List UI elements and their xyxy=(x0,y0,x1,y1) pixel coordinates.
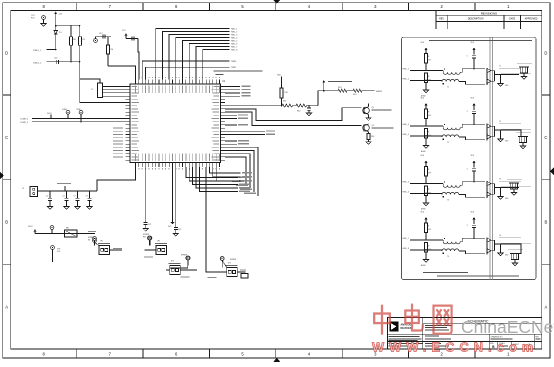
block 1 isolator U4 xyxy=(487,65,531,85)
firm field xyxy=(425,336,451,340)
U2 top pin numbers xyxy=(135,77,220,78)
block 4 transformer T4 xyxy=(442,238,460,258)
size field xyxy=(490,343,495,349)
wire XTAL1 xyxy=(47,49,56,51)
U2 bottom pin stubs xyxy=(136,163,220,168)
wires U2 bottom-right with labels xyxy=(209,167,252,181)
right border zone letters D-A xyxy=(544,50,547,309)
block 4 wire R to ground xyxy=(425,252,427,260)
block 4 wire sec top xyxy=(460,238,485,241)
svg-text:T2: T2 xyxy=(447,142,449,144)
resistor R16 below Q2 xyxy=(367,132,374,142)
block 3 input wire HWL b xyxy=(403,191,442,194)
address micro text 2 xyxy=(389,343,423,346)
wire COM8 bus xyxy=(32,118,126,120)
SPORT wires and labels xyxy=(225,114,248,125)
resistor R13 xyxy=(338,87,347,92)
block 1 resistor R1b xyxy=(425,73,432,83)
svg-text:JP1: JP1 xyxy=(100,240,103,242)
svg-text:T3: T3 xyxy=(499,178,501,180)
wire C13 to U2 pin xyxy=(137,39,140,80)
block 1 transducer cage J1 xyxy=(517,63,532,79)
svg-text:HWL_3: HWL_3 xyxy=(403,124,409,126)
svg-text:INT: INT xyxy=(88,239,91,241)
title block vertical divider 2 xyxy=(488,334,490,349)
svg-text:DVCC: DVCC xyxy=(28,226,34,228)
svg-text:HWL_1: HWL_1 xyxy=(231,29,237,31)
resistor R5 xyxy=(79,26,85,103)
title block line low xyxy=(387,341,541,343)
block 3 decoupling cap C33 xyxy=(467,168,476,183)
svg-text:HWL_2: HWL_2 xyxy=(231,32,237,34)
block 2 transformer T2 xyxy=(442,124,460,144)
wire R11-R12 xyxy=(293,105,297,107)
header JP3 cluster xyxy=(166,256,197,278)
svg-text:HWL_6: HWL_6 xyxy=(403,191,409,193)
svg-text:R16: R16 xyxy=(371,136,374,138)
block 3 wire to cage xyxy=(509,187,519,189)
wire XTAL2 with capacitor C16 xyxy=(47,58,81,64)
title block vertical divider 3 xyxy=(533,334,535,349)
test point TP3 on COM bus xyxy=(62,109,70,119)
block 3 ground stub right xyxy=(498,188,509,201)
node VREF junction xyxy=(307,105,319,107)
wire R13-R14 xyxy=(347,90,353,92)
svg-text:XTAL1_2: XTAL1_2 xyxy=(33,49,42,52)
block 3 wire sec top xyxy=(460,182,485,185)
svg-text:APPROVED: APPROVED xyxy=(525,18,538,21)
right center fold mark xyxy=(550,167,554,175)
block 4 wire R to node xyxy=(425,233,427,241)
svg-text:T4: T4 xyxy=(447,256,449,258)
net label COM9_2 xyxy=(20,122,29,124)
block 4 ground stub right xyxy=(498,244,509,257)
svg-text:JP4: JP4 xyxy=(228,262,231,264)
DVCC rail wire xyxy=(35,233,95,235)
diode D1 xyxy=(54,26,63,50)
block 3 VDD arrow mid xyxy=(471,155,476,168)
block 2 output wire xyxy=(495,129,520,131)
bottom center fold mark xyxy=(273,358,280,362)
block 4 wire sec bottom xyxy=(459,251,485,254)
block 2 VDD arrow mid xyxy=(471,97,476,110)
TP1 label xyxy=(31,15,36,19)
svg-text:C12: C12 xyxy=(99,33,102,35)
title block outline xyxy=(387,318,541,349)
title block vertical divider 1 xyxy=(422,318,424,349)
power arrow AVDD xyxy=(125,33,128,39)
capacitor C21 below U2 xyxy=(144,167,152,229)
resistor R14 xyxy=(353,89,362,96)
svg-text:HWL_5: HWL_5 xyxy=(231,41,237,43)
svg-text:COM9_2: COM9_2 xyxy=(20,122,29,124)
capacitor C20 xyxy=(307,106,311,113)
svg-text:REVISIONS: REVISIONS xyxy=(481,11,497,15)
net label TMR1 xyxy=(231,67,236,69)
svg-text:A: A xyxy=(5,304,8,309)
title block line under title xyxy=(423,322,542,324)
svg-text:49.9: 49.9 xyxy=(428,229,431,231)
block 4 resistor R4b xyxy=(425,243,432,253)
block 3 transformer T3 xyxy=(442,181,460,201)
block 1 ground left rail xyxy=(421,90,429,98)
ground below C20 xyxy=(306,113,311,116)
test point TP1 xyxy=(42,16,46,24)
capacitor C12 cluster xyxy=(94,33,111,42)
block 1 wire sec top xyxy=(460,69,485,72)
border column tick lines xyxy=(77,3,475,358)
svg-text:Q1: Q1 xyxy=(372,107,375,109)
svg-text:R14: R14 xyxy=(353,94,356,96)
svg-text:Y1: Y1 xyxy=(91,89,93,91)
svg-text:HWL_2: HWL_2 xyxy=(403,78,409,80)
block 4 wire to cage xyxy=(515,244,521,254)
net label TMR0 xyxy=(231,61,236,63)
svg-text:C6: C6 xyxy=(63,196,65,198)
svg-text:HWL_7: HWL_7 xyxy=(403,238,409,240)
block 3 isolator U6 xyxy=(487,178,531,198)
U2 top pin names (micro text) xyxy=(135,86,220,94)
svg-text:C21: C21 xyxy=(148,224,151,226)
block 1 ground stub right xyxy=(498,75,509,88)
connector J2 xyxy=(22,187,38,197)
revisions table grid xyxy=(436,10,542,29)
isolation section box xyxy=(401,37,536,279)
svg-text:TMR1: TMR1 xyxy=(231,67,236,69)
svg-text:TMR0: TMR0 xyxy=(231,61,236,63)
isolation barrier bar xyxy=(490,37,493,279)
block 1 transformer T1 xyxy=(442,68,460,88)
svg-text:JP2: JP2 xyxy=(157,240,160,242)
title block line mid xyxy=(387,333,541,335)
UART wires right of U2 xyxy=(225,87,240,97)
U2 right pin stubs xyxy=(220,87,225,161)
svg-text:EXPNDR: EXPNDR xyxy=(230,259,237,261)
block 2 decoupling cap C32 xyxy=(467,110,476,125)
block 1 resistor R1a xyxy=(425,54,432,64)
svg-text:EXPNDR: EXPNDR xyxy=(143,234,150,236)
block 4 VDD arrow mid xyxy=(471,211,476,224)
microcontroller U2 body xyxy=(130,84,220,163)
block 3 ground left rail xyxy=(421,203,429,211)
block 2 wire sec bottom xyxy=(459,137,485,140)
wire U2 to Q2 base xyxy=(225,112,362,125)
title SCHEMATIC xyxy=(468,319,489,323)
wire rail into U2 xyxy=(80,102,126,104)
svg-text:3V3: 3V3 xyxy=(168,226,171,228)
block 3 wire R to node xyxy=(425,176,427,184)
net stub label on rail xyxy=(57,183,71,192)
isolation box top note xyxy=(429,40,532,41)
note text above U2 xyxy=(214,70,263,75)
block 3 wire sec bottom xyxy=(459,195,485,198)
ground below C21 xyxy=(143,229,148,232)
revisions table title xyxy=(481,11,497,15)
block 2 input wire HWL b xyxy=(403,134,442,137)
block 2 wire sec top xyxy=(460,124,485,127)
resistor R11 xyxy=(282,101,293,108)
ground below Q1 xyxy=(366,118,371,121)
svg-text:Q2: Q2 xyxy=(372,125,375,127)
svg-text:DGND: DGND xyxy=(62,109,68,111)
long wire U2 to JP4 xyxy=(206,167,224,272)
svg-text:C13: C13 xyxy=(122,30,125,32)
wire VREF riser xyxy=(318,91,338,106)
+5V power arrow xyxy=(54,12,63,26)
Q2 labels xyxy=(372,125,394,129)
block 2 transducer cage J2 xyxy=(516,132,531,148)
block 2 VDD arrow left xyxy=(421,97,428,109)
U2 top pin stubs xyxy=(136,80,220,85)
HWL staircase net labels xyxy=(231,29,237,52)
header JP2 cluster xyxy=(144,236,167,258)
header JP1 cluster xyxy=(93,237,122,255)
svg-text:COM8_2: COM8_2 xyxy=(20,119,29,121)
svg-text:T3: T3 xyxy=(447,200,449,202)
svg-text:C16: C16 xyxy=(54,58,57,60)
block 3 input wire HWL a xyxy=(403,181,444,183)
ground below TP1 xyxy=(41,24,46,27)
svg-text:49.9: 49.9 xyxy=(428,173,431,175)
bypass capacitors C5-C8 with grounds xyxy=(46,190,92,209)
Analog Devices logo xyxy=(389,321,398,331)
wire U2 to resistor chain xyxy=(225,105,282,107)
wire TMR0 from U2 top xyxy=(142,61,229,80)
block 4 ground left rail xyxy=(421,260,429,268)
svg-text:TGND: TGND xyxy=(76,109,82,111)
svg-text:REV: REV xyxy=(439,19,444,21)
svg-text:R4: R4 xyxy=(73,39,75,41)
net label COM8_2 xyxy=(20,119,29,121)
block 2 resistor R2a xyxy=(425,109,432,119)
block 1 decoupling cap C31 xyxy=(467,55,476,70)
wire COM9 bus xyxy=(32,121,126,123)
svg-text:R12: R12 xyxy=(297,111,300,113)
top border zone numbers 8-1 xyxy=(43,4,511,9)
block 1 VDD arrow left xyxy=(421,42,428,54)
U2 left pin stubs xyxy=(126,87,131,161)
block 4 input wire HWL a xyxy=(403,238,444,240)
net label XTAL1_2 xyxy=(33,49,42,52)
svg-text:C5: C5 xyxy=(46,196,48,198)
wires RP1 to U2 left pins xyxy=(103,87,126,97)
svg-text:T1: T1 xyxy=(499,65,501,67)
watermark ChinaECNet xyxy=(461,317,554,337)
block 2 input wire HWL a xyxy=(403,124,444,126)
svg-text:J2: J2 xyxy=(22,188,24,190)
watermark character zhong xyxy=(374,306,390,334)
capacitor C22 below U2 xyxy=(174,167,181,234)
svg-text:WWW.ECCN.com: WWW.ECCN.com xyxy=(372,340,538,355)
block 1 VDD arrow mid xyxy=(471,42,476,55)
block 4 decoupling cap C34 xyxy=(467,224,476,239)
svg-text:RST: RST xyxy=(143,236,146,238)
svg-text:VREF2: VREF2 xyxy=(376,91,383,93)
block 4 output wire xyxy=(495,243,520,245)
block 2 ground stub right xyxy=(498,130,509,143)
test point TP8 xyxy=(143,234,151,246)
bypass rail wire xyxy=(38,190,98,192)
header JP4 cluster xyxy=(208,257,246,279)
bottom border zone numbers 8-1 xyxy=(43,352,511,357)
U2 right pin names (micro text) xyxy=(211,86,219,160)
svg-text:C7: C7 xyxy=(74,196,76,198)
block 3 resistor R3a xyxy=(425,167,432,177)
svg-text:R11: R11 xyxy=(283,101,286,103)
svg-text:T4: T4 xyxy=(499,235,501,237)
U2 lower left net labels xyxy=(113,128,123,158)
svg-text:HWL_7: HWL_7 xyxy=(231,47,237,49)
top center fold mark xyxy=(273,0,280,3)
isolation box bottom note 2 xyxy=(437,276,519,277)
HWL staircase bus from U2 top xyxy=(156,29,230,80)
svg-text:A: A xyxy=(545,304,548,309)
block 3 wire R to ground xyxy=(425,196,427,204)
svg-text:T2: T2 xyxy=(499,121,501,123)
svg-text:C: C xyxy=(5,135,8,140)
sheet field xyxy=(513,344,531,346)
svg-text:HWL_4: HWL_4 xyxy=(403,134,409,136)
svg-text:T1: T1 xyxy=(447,87,449,89)
wire to VREF label xyxy=(362,90,375,92)
DVCC rail arrow xyxy=(28,226,37,234)
block 3 VDD arrow left xyxy=(421,155,428,167)
ground below C22 xyxy=(173,234,178,237)
svg-text:C8: C8 xyxy=(86,196,88,198)
test point TP4 on COM bus xyxy=(76,109,83,122)
power arrow VDD mid xyxy=(322,80,325,92)
svg-text:R5: R5 xyxy=(83,39,85,41)
U2 bottom pin names (micro text) xyxy=(135,154,220,162)
net label box below JP4 xyxy=(240,270,248,279)
transistor Q2 xyxy=(363,124,370,132)
wire cluster to U2 pin xyxy=(108,66,136,80)
ground below R16 xyxy=(366,142,371,145)
left center fold mark xyxy=(0,172,4,180)
svg-text:49.9: 49.9 xyxy=(428,60,431,62)
U2 bottom pin numbers xyxy=(135,168,220,169)
block 1 wire to cage xyxy=(518,74,520,76)
svg-text:DEVICES: DEVICES xyxy=(401,327,412,330)
border row tick lines xyxy=(3,95,550,264)
isolation box bottom note 1 xyxy=(423,272,468,273)
wires bending down right of U2 xyxy=(225,147,258,196)
svg-text:ChinaECNet: ChinaECNet xyxy=(461,317,554,337)
top-left power rail wire xyxy=(55,25,80,27)
svg-text:HWL_6: HWL_6 xyxy=(231,44,237,46)
wire RP1 top xyxy=(80,79,100,83)
net label VREF2 xyxy=(376,91,383,93)
block 1 input wire HWL a xyxy=(403,68,444,70)
scale field xyxy=(499,342,508,346)
size scale dividers xyxy=(498,342,512,350)
svg-text:DESCRIPTION: DESCRIPTION xyxy=(468,19,484,21)
power label 3V3 below U2 xyxy=(168,167,175,228)
svg-text:EXPNDR: EXPNDR xyxy=(88,237,95,239)
title block doc lines xyxy=(425,325,452,331)
svg-text:D: D xyxy=(5,50,8,55)
svg-text:D: D xyxy=(544,50,547,55)
svg-text:HWL_5: HWL_5 xyxy=(403,181,409,183)
rev field xyxy=(535,336,540,339)
svg-text:HWL_1: HWL_1 xyxy=(403,68,409,70)
block 4 input wire HWL b xyxy=(403,248,442,251)
block 1 wire R to node xyxy=(425,63,427,71)
SPORT2 wires and labels xyxy=(225,130,275,135)
block 2 ground left rail xyxy=(421,146,429,154)
test point TP10 xyxy=(220,257,237,268)
resistor network RP1 xyxy=(91,83,103,98)
wire TMR1 from U2 top xyxy=(146,67,230,79)
block 2 wire R to node xyxy=(425,119,427,127)
svg-text:C22: C22 xyxy=(178,229,181,231)
block 2 resistor R2b xyxy=(425,129,432,139)
block 1 output wire xyxy=(495,74,520,76)
engineer field xyxy=(425,343,449,347)
svg-text:VDD: VDD xyxy=(277,75,282,77)
transistor Q1 xyxy=(363,107,370,115)
block 1 input wire HWL b xyxy=(403,78,442,81)
net label XTAL2_2 xyxy=(33,61,42,64)
test point TP5 xyxy=(50,226,54,235)
svg-text:JP3: JP3 xyxy=(171,260,174,262)
svg-text:HWL_3: HWL_3 xyxy=(231,35,237,37)
address micro text xyxy=(389,336,422,341)
block 2 wire R to ground xyxy=(425,138,427,146)
rail end label xyxy=(88,231,96,232)
block 1 wire sec bottom xyxy=(459,82,485,85)
wire U2 bottom-left to rail xyxy=(97,167,136,191)
NANOD staircase labels xyxy=(239,177,250,192)
block 4 transducer cage J4 xyxy=(508,249,523,265)
test point TP9 xyxy=(181,255,190,266)
note text right of VDD arrow xyxy=(328,81,352,82)
watermark character dian xyxy=(405,305,423,331)
svg-text:B: B xyxy=(5,220,8,225)
test point TP6 tower xyxy=(51,246,61,262)
ferrite bead FB1 xyxy=(65,228,78,238)
svg-text:DVCC: DVCC xyxy=(47,113,53,115)
capacitor C13 xyxy=(122,30,138,41)
block 3 output wire xyxy=(495,187,520,189)
U2 left pin names (micro text) xyxy=(132,86,140,160)
svg-text:R13: R13 xyxy=(338,87,341,89)
svg-text:HWL_4: HWL_4 xyxy=(231,38,237,40)
block 4 resistor R4a xyxy=(425,223,432,233)
resistor R12 xyxy=(296,104,307,112)
NANOD wires right xyxy=(225,140,249,145)
svg-text:HWL_8: HWL_8 xyxy=(403,248,409,250)
NANOD staircase below U2 xyxy=(186,167,238,192)
svg-text:DATE: DATE xyxy=(509,18,515,21)
svg-text:HWL_8: HWL_8 xyxy=(231,50,237,52)
svg-text:XTAL2_2: XTAL2_2 xyxy=(33,61,42,64)
svg-text:FB1: FB1 xyxy=(66,228,69,230)
watermark character wang xyxy=(434,306,452,334)
svg-text:49.9: 49.9 xyxy=(428,115,431,117)
block 1 wire R to ground xyxy=(425,83,427,91)
Q1 emitter to ground xyxy=(368,115,370,118)
resistor R4 xyxy=(70,26,76,62)
node XTAL1 junction xyxy=(55,49,57,51)
Q1 collector wire xyxy=(369,104,392,111)
svg-text:B: B xyxy=(545,220,548,225)
block 3 resistor R3b xyxy=(425,186,432,196)
watermark www.eccn.com xyxy=(372,340,538,355)
drawing no field xyxy=(491,335,513,339)
left border zone letters D-A xyxy=(5,50,8,309)
block 2 wire to cage xyxy=(519,130,523,137)
